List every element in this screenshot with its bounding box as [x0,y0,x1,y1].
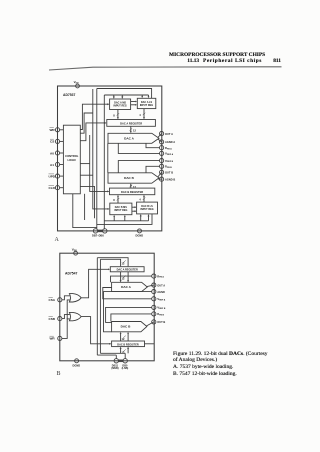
svg-text:CSA: CSA [49,298,56,302]
wire clock to DAC B MS reg [80,89,109,209]
pin UPD (A) [49,174,64,179]
pin A0 (A) [50,151,63,155]
pin VREF B (B) [152,305,166,310]
wire link MS to LS (A top) [131,102,137,105]
pin WR (B) [50,336,62,341]
wire 12-bit stub to DAC A [130,126,137,132]
svg-text:4: 4 [139,113,141,117]
svg-text:DAC A REGISTER: DAC A REGISTER [117,269,138,272]
wire clock to DAC A LS reg [80,113,93,133]
wire data bus riser right (B) [99,259,101,353]
svg-text:INPUT REG: INPUT REG [113,105,126,108]
svg-text:FB B: FB B [167,167,172,169]
pin DGND (A) [136,229,144,238]
svg-text:REF B: REF B [167,161,174,163]
pin OUT B [160,170,174,174]
pin RFB A [160,146,173,151]
svg-text:INPUT REG: INPUT REG [140,208,153,211]
wire bottom bus run lower (A) [97,214,152,225]
svg-text:12: 12 [122,277,125,281]
register DAC A LS input reg [137,98,156,108]
register DAC B MS input reg [110,203,132,215]
wire DAC B to OUT B (B) [146,322,153,326]
wire RFB A (B) [111,276,152,282]
svg-text:OUT A: OUT A [157,283,165,287]
pin AGND A [160,140,176,144]
wire top bus run upper (A) [97,89,152,99]
wire bottom bus run (B) [97,353,125,355]
wire clock to DAC B LS reg [80,186,94,218]
svg-text:12: 12 [122,350,125,354]
register DAC B LS input reg [137,202,158,214]
wire bottom bus run upper with taps (A) [104,215,148,221]
svg-text:(MSB): (MSB) [111,367,118,370]
pin A1 (A) [50,162,63,166]
svg-text:AGND: AGND [157,290,165,294]
svg-text:FB B: FB B [159,315,164,317]
wire top bus run (B) [97,258,128,267]
wire CSA to gate G1 [62,296,70,300]
svg-text:DAC A: DAC A [124,136,134,140]
DAC A converter (B) [112,282,148,291]
label AD7537 [63,93,76,97]
label AD7547 [65,272,78,276]
wire DAC B to AGND B pin [158,178,162,180]
pin VDD (A) [74,80,80,88]
pin CSA (B) [49,298,62,303]
svg-text:AD7537: AD7537 [63,93,76,97]
pin DB0 LSB (B) [119,353,129,370]
svg-text:REF A: REF A [167,153,174,156]
pin CSB (B) [49,316,62,321]
wire 12-bit stub to DAC B [130,184,137,189]
wire VREF B [118,161,159,173]
svg-text:DD: DD [74,250,78,252]
wire RFB A [146,143,160,147]
pin DGND (B) [73,359,81,368]
pin AGND B [160,177,176,181]
register DAC B register [110,188,155,195]
svg-text:REF B: REF B [159,308,166,310]
svg-text:DGND: DGND [73,363,81,367]
header line 2 [187,58,199,64]
svg-text:FB A: FB A [159,276,164,279]
control logic block (A) [63,125,80,194]
svg-text:INPUT REG: INPUT REG [140,104,153,107]
wire VREF B loop (B) [106,307,152,322]
register DAC B register (B) [112,341,145,347]
pin VREF A (B) [152,297,166,302]
wire 4-bit stub to DAC A register [139,109,145,119]
pin RFB B (B) [152,312,165,317]
wire clock to DAC A MS reg [80,104,109,129]
svg-text:4: 4 [139,198,141,202]
wire control logic bottom run (A) [73,194,97,228]
DAC B converter (B) [112,322,147,332]
pin RFB B [160,164,173,169]
svg-text:DAC A REGISTER: DAC A REGISTER [120,121,142,125]
pin VREF B [160,159,174,164]
svg-text:DAC B: DAC B [124,176,135,180]
wire DAC A to OUT A (B) [147,285,154,287]
svg-text:OUT B: OUT B [157,320,165,324]
pin CS (A) [50,139,63,144]
wire VREF A loop (B) [103,288,152,299]
pin bus DB7-DB0 (A) [92,229,107,238]
pin CLR (A) [49,186,64,191]
wire bottom bus channel (B) [121,347,129,354]
wire clock to DAC B register [80,135,109,191]
wire 8-bit stub to DAC A register [113,110,119,119]
svg-text:12: 12 [122,262,125,266]
DAC B converter [108,173,159,183]
wire link MS to LS (A bottom) [132,207,136,211]
DAC A converter [108,133,159,143]
wire CSB to gate G2 [62,315,70,319]
wire 12-bit marker top channel (B) [122,260,126,265]
pin AGND (B) [152,290,165,294]
wire data bus riser left (A) [96,89,98,230]
wire top bus run lower with taps (A) [104,95,148,98]
svg-text:DGND: DGND [136,234,144,238]
svg-text:CLR: CLR [49,186,56,190]
wire AGND (B) [104,292,152,332]
gate G1 (CSA+WR) [69,294,81,302]
svg-text:INPUT REG: INPUT REG [114,209,127,212]
svg-text:REF A: REF A [159,298,166,301]
pin DB11 MSB (B) [111,355,118,370]
svg-text:A1: A1 [50,163,54,167]
outer box U1 AD7537 [58,86,162,231]
svg-text:LOGIC: LOGIC [68,158,77,162]
pin VDD (B) [72,247,78,255]
pin OUT B (B) [152,320,166,324]
wire channel DAC A register to DAC A (B) [121,272,129,282]
svg-text:UPD: UPD [49,174,56,178]
svg-text:WR: WR [50,128,56,132]
wire WR riser to gates [62,300,70,339]
svg-text:DAC B REGISTER: DAC B REGISTER [121,190,143,194]
svg-text:DD: DD [76,83,80,85]
pin VREF A [160,151,174,156]
header page number 811 [273,58,281,64]
svg-text:AGND A: AGND A [165,140,175,144]
pin WR (A) [50,128,64,133]
label A (diagram A) [55,237,59,243]
wire clock to DAC A register [80,123,106,141]
svg-text:WR: WR [50,337,56,341]
header rule [49,67,282,70]
svg-text:12: 12 [122,337,125,341]
svg-text:FB A: FB A [167,147,172,150]
wire DAC B to OUT B pin [158,172,162,177]
svg-text:DAC B: DAC B [121,325,132,329]
svg-text:OUT B: OUT B [165,171,173,175]
label B (diagram B) [57,371,61,377]
register DAC A register [107,120,156,127]
register DAC A MS input reg [110,99,131,110]
svg-text:12: 12 [133,128,136,132]
svg-text:8: 8 [113,198,115,202]
gate G2 (CSB+WR) [69,312,81,320]
header line 1 [169,52,265,58]
wire 4-bit stub to DAC B register [139,195,145,202]
wire control logic to B LS clock (A) [84,194,86,220]
wire data bus riser right (A) [103,95,105,229]
wire data bus riser left (B) [96,258,98,355]
register DAC A register (B) [110,267,144,272]
wire gate G2 output to DAC B register clock [81,317,111,344]
svg-text:DAC B REGISTER: DAC B REGISTER [117,343,139,346]
svg-text:OUT A: OUT A [165,132,173,136]
wire 8-bit stub to DAC B register [113,195,119,203]
svg-text:DAC A: DAC A [121,285,131,289]
svg-text:A0: A0 [50,151,54,155]
svg-text:AGND B: AGND B [165,177,175,181]
svg-text:CS: CS [50,140,54,144]
svg-text:CONTROL: CONTROL [65,154,79,158]
svg-text:(LSB): (LSB) [122,367,129,370]
wire DAC A to AGND A pin [158,139,162,142]
pin RFB A (B) [152,274,165,279]
svg-text:AD7547: AD7547 [65,272,78,276]
wire DAC A to OUT A pin [158,134,162,138]
svg-text:8: 8 [113,113,115,117]
wire DAC B register right stub [145,343,155,345]
pin OUT A [160,132,174,136]
outer box U2 AD7547 [60,253,154,361]
wire VREF A [118,143,159,153]
wire gate G1 output to DAC A register clock [81,269,109,298]
wire RFB B (B) [111,314,152,322]
wire channel DAC B register to DAC B (B) [121,333,129,342]
wire RFB B [146,166,160,173]
svg-text:DB7–DB0: DB7–DB0 [92,234,104,238]
figure caption [173,351,283,377]
wire ladder rail between DAC A and DAC B [107,143,109,173]
svg-text:CSB: CSB [49,317,56,321]
pin OUT A (B) [152,283,166,287]
